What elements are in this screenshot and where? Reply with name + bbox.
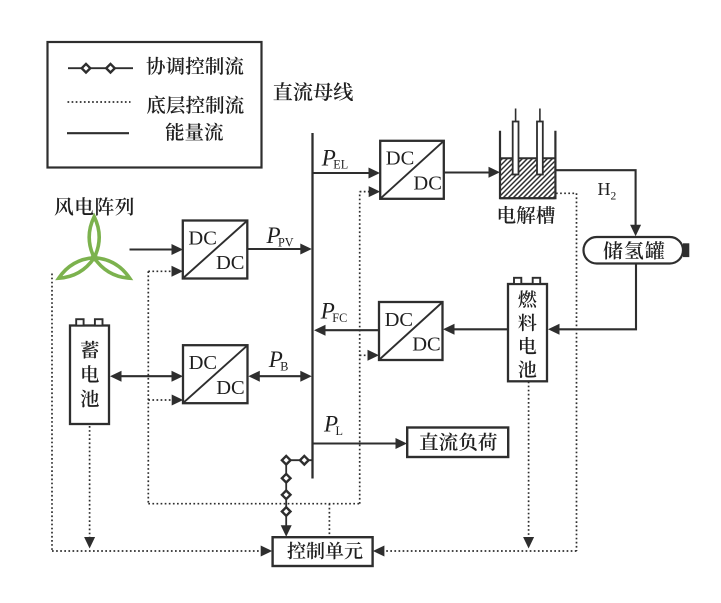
svg-text:DC: DC	[413, 172, 441, 194]
svg-text:FC: FC	[332, 311, 347, 325]
wire U4 to electrolyzer	[444, 167, 500, 178]
label P_PV	[266, 223, 294, 249]
svg-text:2: 2	[611, 191, 617, 203]
battery B1 蓄电池	[70, 319, 109, 424]
wire bus to load P_L	[314, 438, 408, 449]
label 控制单元	[287, 542, 362, 560]
legend label 协调控制流	[147, 57, 244, 75]
svg-text:DC: DC	[216, 252, 244, 274]
label P_L	[323, 412, 343, 438]
control wire fuel cell to control unit	[523, 382, 534, 549]
wind array icon	[56, 217, 132, 283]
svg-text:DC: DC	[412, 334, 440, 356]
converter U3 DC/DC fuel cell	[379, 302, 443, 360]
wire bus to U4 P_EL	[314, 168, 381, 179]
control wire trunk horizontal	[148, 503, 359, 505]
control unit box 控制单元	[273, 537, 373, 566]
control wire to converters U1 U2	[148, 266, 183, 504]
label 风电阵列 wind array	[55, 197, 134, 215]
label P_FC	[320, 299, 347, 325]
legend box	[48, 42, 262, 168]
svg-text:PV: PV	[278, 235, 294, 249]
hydrogen tank T1 储氢罐	[584, 237, 690, 264]
converter U2 DC/DC battery	[183, 345, 248, 403]
electrolyzer EL1	[457, 109, 684, 200]
dc load box 直流负荷	[407, 428, 508, 458]
wire U2 to bus P_B bidirectional	[248, 371, 311, 382]
svg-text:EL: EL	[333, 158, 348, 172]
dc bus	[311, 133, 313, 479]
label P_EL	[321, 145, 348, 171]
control wire electrolyzer to control unit	[373, 193, 577, 556]
svg-text:DC: DC	[188, 227, 216, 249]
converter U1 DC/DC wind	[183, 221, 248, 279]
label H2	[598, 179, 617, 203]
control wire wind to control unit	[52, 274, 272, 557]
wire U1 to bus P_PV	[247, 244, 311, 255]
svg-text:H: H	[598, 179, 611, 199]
wire wind to converter U1	[130, 244, 184, 255]
wire fuel cell to U3	[443, 324, 508, 335]
legend coordination control line	[68, 64, 133, 73]
legend label 底层控制流	[147, 96, 244, 114]
svg-text:L: L	[336, 424, 343, 438]
control wire drop to control unit	[328, 504, 330, 537]
legend energy flow line	[67, 132, 129, 134]
label 直流负荷	[420, 433, 497, 451]
coordination control link bus to control unit	[281, 456, 312, 537]
svg-text:DC: DC	[385, 309, 413, 331]
fuel cell FC1 燃料电池	[508, 278, 547, 382]
svg-text:B: B	[280, 359, 288, 373]
wire U3 to bus P_FC	[314, 325, 379, 336]
wire electrolyzer to tank H2	[556, 170, 642, 236]
svg-text:DC: DC	[386, 148, 414, 170]
label 电解槽	[499, 206, 555, 224]
label P_B	[268, 347, 289, 373]
legend low-level control line	[68, 101, 131, 103]
legend label 能量流	[166, 123, 223, 141]
control wire riser to converters U3 U4	[360, 186, 381, 504]
wire battery to U2 bidirectional	[110, 371, 183, 382]
svg-text:DC: DC	[189, 352, 217, 374]
converter U4 DC/DC electrolyzer	[380, 141, 444, 199]
label 直流母线 DC bus	[273, 82, 353, 101]
wire tank to fuel cell	[548, 264, 636, 335]
svg-text:DC: DC	[216, 377, 244, 399]
control wire battery to control unit	[84, 426, 95, 549]
label 储氢罐	[604, 241, 665, 259]
